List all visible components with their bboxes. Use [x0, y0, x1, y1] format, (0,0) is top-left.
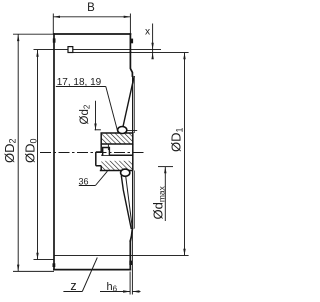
- svg-text:B: B: [87, 2, 95, 14]
- svg-text:Ød2: Ød2: [79, 104, 92, 124]
- svg-text:x: x: [145, 27, 150, 38]
- svg-text:z: z: [70, 279, 76, 293]
- svg-text:ØD2: ØD2: [2, 138, 18, 163]
- svg-text:h6: h6: [107, 281, 118, 294]
- svg-text:ØD1: ØD1: [169, 127, 185, 152]
- svg-text:17, 18, 19: 17, 18, 19: [57, 77, 102, 88]
- svg-text:Ødmax: Ødmax: [151, 185, 167, 219]
- svg-text:36: 36: [78, 176, 88, 186]
- svg-text:ØD0: ØD0: [23, 138, 39, 163]
